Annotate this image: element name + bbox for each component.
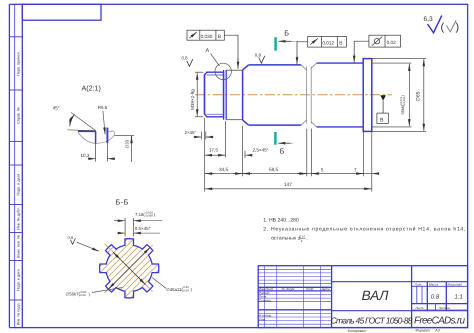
datum B flag [380,95,386,101]
svg-text:1:1: 1:1 [455,294,463,301]
svg-text:Инв. № дубл.: Инв. № дубл. [17,207,21,230]
spline section outline [317,63,364,127]
svg-text:2×45°: 2×45° [185,130,197,135]
svg-text:6,3: 6,3 [424,16,433,23]
svg-text:147: 147 [284,182,292,187]
svg-text:): ) [456,22,460,34]
hatching [59,198,168,307]
svg-text:∅65: ∅65 [416,91,422,101]
svg-text:0,8: 0,8 [255,52,262,57]
45 degree angle lines [68,113,97,131]
svg-text:∅46a11(: ∅46a11( [166,287,183,292]
spline section left chamfers [311,63,316,68]
svg-text:0,6: 0,6 [68,235,74,240]
svg-text:Перв. примен.: Перв. примен. [17,51,21,76]
top-left box [22,4,101,20]
svg-text:FreeCADs.ru: FreeCADs.ru [414,315,465,326]
svg-text:2,5×45°: 2,5×45° [253,148,269,153]
dim 7.18 spline width [114,218,162,237]
svg-text:M39×2-8g: M39×2-8g [190,89,195,110]
svg-text:Масштаб: Масштаб [448,283,463,287]
svg-text:Сталь 45 ГОСТ 1050-88: Сталь 45 ГОСТ 1050-88 [331,316,413,326]
dim M39 vertical [195,72,203,117]
tolerance frame 0.012 B [297,37,346,65]
dia46 dim line on 135 diagonal [113,252,145,284]
flange 65 [363,59,372,132]
svg-text:45°: 45° [53,106,60,111]
svg-text:2. Неуказанные предельные от: 2. Неуказанные предельные отклонения отв… [263,227,465,233]
svg-text:(: ( [441,22,445,34]
svg-text:0,012: 0,012 [322,41,334,46]
dim 147 [205,188,372,190]
dim 0.5x45 chamfer [118,232,160,234]
svg-text:Подп. и дата: Подп. и дата [17,268,21,291]
groove section lines [226,70,242,119]
dim row 34.5 58.5 5 7 [205,126,379,192]
svg-text:Инв. № подл.: Инв. № подл. [17,302,21,325]
svg-text:ВАЛ: ВАЛ [362,288,390,303]
svg-text:Подп. и дата: Подп. и дата [17,173,21,196]
left strip rotated labels [17,51,21,325]
relief groove 5 [306,67,308,124]
svg-text:7: 7 [354,167,357,172]
svg-text:1. HB 240...280: 1. HB 240...280 [263,218,299,224]
left strip box dividers [9,37,22,300]
main view centerline [195,94,392,96]
svg-text:10,3: 10,3 [81,153,90,158]
sheet left edge [8,4,10,327]
svg-text:Утв.: Утв. [259,317,266,321]
section mark Б bottom [274,132,276,145]
big section outline [243,65,302,125]
svg-text:Лит.: Лит. [414,283,422,287]
svg-text:Б-Б: Б-Б [116,198,129,207]
svg-text:IT14: IT14 [299,234,305,238]
section centerline diagonals [105,244,155,294]
dim dia65 [372,59,426,132]
svg-text:5: 5 [321,167,324,172]
svg-text:Б: Б [284,29,289,38]
svg-text:∅56k7(: ∅56k7( [66,292,81,297]
svg-text:A(2:1): A(2:1) [82,84,101,92]
dia56 dim arrows on 45 diagonal [109,248,150,289]
detail A circle [215,63,231,79]
svg-text:А3: А3 [434,329,439,333]
svg-text:34,5: 34,5 [219,167,229,172]
thread end face double line [223,70,225,120]
svg-text:17,5: 17,5 [209,147,218,152]
svg-text:58,5: 58,5 [269,167,279,172]
detail A surface line [78,130,96,132]
svg-text:Копировал: Копировал [348,329,366,333]
left strip middle line [14,4,16,327]
svg-text:-0,64: -0,64 [182,289,189,293]
tolerance frame cylindricity 0.02 [354,35,400,62]
svg-text:Лист: Лист [415,306,424,310]
spline profile [100,239,159,298]
section mark Б top [274,37,276,51]
svg-text:В: В [380,117,384,123]
svg-text:Т.контр.: Т.контр. [259,298,272,302]
svg-text:∅33: ∅33 [125,139,130,148]
svg-text:0.8: 0.8 [431,294,440,301]
svg-text:-0,065: -0,065 [145,214,154,218]
svg-text:Формат: Формат [415,329,429,333]
dim dia56k6 [372,63,411,127]
title block texts [259,283,462,322]
svg-text:Б: Б [280,147,285,156]
svg-text:.: . [306,236,307,242]
dim dia33 [115,136,135,162]
svg-text:0.5×45°: 0.5×45° [135,226,151,231]
svg-text:Дата: Дата [321,287,330,291]
thread minor line [207,75,224,114]
svg-text:Справ. №: Справ. № [17,107,21,124]
title block [258,266,467,328]
svg-text:-0,06: -0,06 [79,293,86,297]
dim 10.3 [88,143,115,162]
svg-text:Листов: Листов [438,306,451,310]
svg-text:0,8: 0,8 [182,56,189,61]
svg-text:Масса: Масса [429,283,438,287]
svg-text:7,18(: 7,18( [135,212,145,217]
detail A groove curve [78,131,115,143]
detail A thread flank line [95,131,97,143]
svg-text:№ докум.: № докум. [282,287,296,291]
svg-text:Подп.: Подп. [306,287,314,291]
svg-text:+0,002: +0,002 [403,96,406,105]
svg-text:0,02: 0,02 [387,40,397,45]
detail A right edge piece [106,128,108,143]
svg-text:R5.5: R5.5 [98,105,108,110]
thread section M39 outline [205,70,227,120]
svg-text:остальных ±: остальных ± [271,236,301,242]
svg-text:0,030: 0,030 [201,34,213,39]
svg-text:A: A [206,48,210,54]
svg-text:Взам. инв. №: Взам. инв. № [17,235,21,258]
big section right chamfers [301,63,316,127]
tolerance frame 0.030 B [187,30,238,69]
